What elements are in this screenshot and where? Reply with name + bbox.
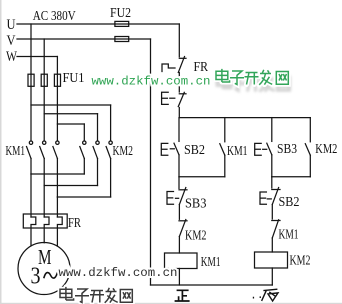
motor M 3~ (18, 243, 70, 295)
svg-text:KM2: KM2 (113, 143, 134, 158)
wire bottom bus (151, 284, 273, 286)
fuse FU1 element b (41, 74, 47, 86)
wire FR to SB1 (178, 73, 180, 93)
coil KM2 (255, 252, 288, 268)
wire phase B to FR (43, 186, 45, 218)
contactor KM1 main contact pole2 (40, 141, 46, 159)
pushbutton SB2 start NO (161, 143, 179, 155)
svg-text:W: W (6, 49, 18, 65)
wire KM1 pole1 out (30, 159, 32, 175)
svg-text:KM1: KM1 (227, 143, 248, 158)
node W phase label (6, 49, 18, 65)
thermal relay FR NC contact (162, 57, 186, 73)
wire left chain down (178, 177, 180, 189)
wire KM1 coil to bottom bus (178, 269, 180, 286)
value label AC 380V (33, 9, 76, 24)
wire KM2 pole3 out (110, 159, 112, 198)
wire U phase bus (17, 23, 179, 25)
screenshot bottom edge artifact (0, 303, 342, 304)
wire branch col SB3 (271, 118, 273, 142)
wire control return from V (150, 39, 152, 285)
thermal relay FR heater label (68, 215, 82, 230)
node V phase label (7, 33, 16, 49)
contactor KM2 main contact pole3 (106, 141, 112, 159)
svg-text:SB3: SB3 (277, 141, 297, 156)
wire control feed from U (178, 24, 180, 57)
contactor KM2 aux label (315, 141, 337, 156)
svg-text:www.dzkfw.com.cn: www.dzkfw.com.cn (59, 266, 178, 280)
wire branch col KM2 aux (309, 118, 311, 142)
wire crossover U to KM2 pole3 (31, 105, 111, 141)
wire KM1 NC to KM2 coil (271, 238, 273, 252)
svg-text:FU2: FU2 (110, 5, 131, 20)
contactor KM1 main contacts label (6, 143, 26, 158)
coil KM2 label (290, 253, 311, 268)
wire merge phase C (57, 196, 110, 198)
wire branch col KM1 aux (224, 118, 226, 142)
contactor KM1 main contact pole3 (53, 141, 59, 159)
label ZHENG forward (CJK) (175, 290, 190, 301)
wire V to KM1 pole2 (43, 86, 45, 140)
contactor KM1 auxiliary NO contact (220, 144, 225, 156)
fuse FU2 element a (115, 21, 129, 26)
svg-text:AC 380V: AC 380V (33, 9, 76, 24)
pushbutton SB2 interlock NC (260, 188, 280, 205)
svg-text:V: V (7, 33, 16, 49)
contactor KM2 main contacts label (113, 143, 134, 158)
contactor KM1 aux label (227, 143, 248, 158)
contactor KM2 main contact pole1 (80, 141, 86, 159)
wire KM2 coil to bottom bus (271, 268, 273, 285)
wire W drop (56, 57, 58, 75)
svg-text:SB2: SB2 (184, 142, 205, 157)
pushbutton SB3 interlock NC (167, 188, 187, 205)
contactor KM1 interlock label (279, 227, 299, 242)
svg-text:FR: FR (194, 59, 209, 74)
wire phase A to FR (30, 174, 32, 217)
wire U to KM1 pole1 (30, 86, 32, 140)
watermark green www.dzkfw.com.cn (92, 75, 211, 89)
thermal relay FR heater element a (31, 217, 36, 246)
contactor KM2 interlock NC contact (179, 220, 187, 237)
wire V drop (43, 39, 45, 74)
screenshot left edge artifact (0, 0, 2, 304)
wire merge phase B (44, 185, 97, 187)
fuse FU2 label (110, 5, 131, 20)
node U phase label (7, 17, 16, 33)
contactor KM2 interlock label (185, 228, 207, 243)
pushbutton SB2 interlock label (279, 194, 300, 209)
wire KM1 pole2 out (43, 159, 45, 186)
wire W to KM1 pole3 (56, 86, 58, 140)
svg-text:U: U (7, 17, 16, 33)
svg-text:KM1: KM1 (6, 143, 26, 158)
wire W phase bus (17, 56, 57, 58)
wire SB2 out (178, 155, 180, 177)
coil KM1 (165, 253, 198, 269)
wire KM2 aux out (309, 155, 311, 177)
wire SB3 NC to KM2 NC (178, 205, 180, 220)
wire crossover V to KM2 pole2 (44, 114, 97, 141)
svg-text:KM2: KM2 (185, 228, 207, 243)
pushbutton SB3 label (277, 141, 297, 156)
svg-text:3: 3 (31, 264, 41, 290)
svg-text:KM2: KM2 (315, 141, 337, 156)
fuse FU1 element a (28, 74, 34, 86)
wire U drop (30, 24, 32, 74)
wire KM1 pole3 out (56, 159, 58, 198)
thermal relay FR heater element b (44, 217, 49, 243)
watermark dark dianzikaifawang (CJK) (60, 287, 132, 303)
thermal relay FR heater box (23, 214, 67, 228)
wire merge bus left (179, 176, 225, 178)
wire SB3 out (271, 155, 273, 177)
svg-text:KM2: KM2 (290, 253, 311, 268)
wire branch bus (179, 117, 310, 119)
svg-text:KM1: KM1 (279, 227, 299, 242)
wire merge phase A (31, 173, 84, 175)
contactor KM1 interlock NC contact (272, 220, 280, 238)
thermal relay FR contact label (194, 59, 209, 74)
contactor KM2 main contact pole2 (93, 141, 99, 159)
wire merge bus right (272, 176, 311, 178)
svg-text:KM1: KM1 (201, 254, 221, 269)
pushbutton SB3 interlock label (185, 196, 207, 211)
wire phase C to FR (56, 197, 58, 217)
svg-text:www.dzkfw.com.cn: www.dzkfw.com.cn (92, 75, 211, 89)
wire SB1 to branch bus (178, 108, 180, 118)
thermal relay FR heater element c (57, 217, 62, 246)
wire KM2 pole2 out (97, 159, 99, 186)
watermark dark www.dzkfw.com.cn (59, 266, 178, 280)
pushbutton SB2 label (184, 142, 205, 157)
wire SB2 NC to KM1 NC (271, 205, 273, 220)
wire V phase bus (17, 38, 151, 40)
pushbutton SB3 start NO (255, 143, 272, 155)
contactor KM1 main contact pole1 (27, 141, 33, 159)
wire branch col SB2 (178, 118, 180, 142)
fuse FU2 element b (115, 37, 129, 42)
fuse FU1 element c (54, 74, 60, 86)
coil KM1 label (201, 254, 221, 269)
svg-text:FR: FR (68, 215, 82, 230)
wire KM2 NC to KM1 coil (178, 237, 180, 254)
svg-text:SB2: SB2 (279, 194, 300, 209)
wire right chain down (271, 177, 273, 188)
wire crossover W to KM2 pole1 (57, 124, 84, 141)
pushbutton SB1 stop NC (162, 92, 186, 106)
wire KM2 pole1 out (83, 159, 85, 175)
svg-text:SB3: SB3 (185, 196, 207, 211)
label FAN reverse (CJK) (253, 289, 278, 301)
fuse FU1 label (63, 70, 85, 85)
svg-text:FU1: FU1 (63, 70, 85, 85)
contactor KM2 auxiliary NO contact (305, 144, 310, 156)
wire KM1 aux out (224, 155, 226, 177)
